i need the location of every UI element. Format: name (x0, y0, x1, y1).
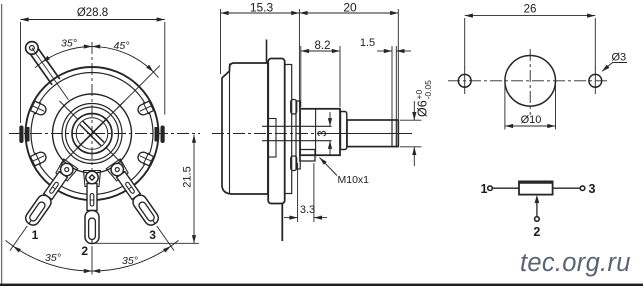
dim arc 35/35 bottom (6, 240, 179, 271)
wire 3 (553, 187, 581, 189)
pin end line inside bushing (315, 110, 317, 155)
crimp finger lower-right (136, 149, 155, 167)
dim 15.3 (221, 9, 300, 108)
dim Ø10 (505, 84, 556, 130)
small hole left centerline (464, 67, 466, 94)
cover flange ring (268, 59, 285, 204)
svg-text:1.5: 1.5 (360, 37, 375, 49)
cover inner ring r30 (62, 104, 122, 164)
small hole right centerline (594, 67, 596, 94)
svg-text:45°: 45° (114, 40, 130, 52)
svg-text:M10x1: M10x1 (338, 174, 370, 186)
dim 21.5 (94, 135, 199, 244)
svg-text:20: 20 (343, 1, 357, 15)
bushing boss (296, 101, 300, 169)
locating lug arm (30, 48, 60, 84)
shaft slot lines (391, 121, 393, 147)
lug radial line (35 deg side) (32, 48, 69, 100)
svg-text:1: 1 (32, 228, 39, 242)
body outer circle (26, 67, 159, 200)
hub bulge (268, 119, 276, 158)
cover inner ring r26.5 (66, 107, 119, 160)
svg-text:3: 3 (589, 182, 596, 196)
crimp hook top (291, 100, 297, 115)
locating lug head (26, 42, 39, 55)
terminal 1 node (488, 186, 493, 191)
inner circle r39.5 (53, 94, 132, 173)
45 deg radial line (118, 66, 160, 108)
hole Ø10 (505, 56, 556, 107)
svg-text:-0.05: -0.05 (423, 80, 433, 100)
hole Ø3 left (458, 74, 471, 87)
svg-text:15.3: 15.3 (250, 1, 274, 15)
side view centerline (212, 133, 412, 135)
wiper arrow (536, 198, 538, 217)
can top tab (266, 40, 268, 64)
dim arc 35/45 top (35, 46, 159, 77)
svg-text:2: 2 (81, 244, 88, 258)
vertical centerline (91, 42, 93, 246)
dim Ø28.8 (21, 20, 165, 124)
bottom scan border (0, 284, 643, 286)
crimp finger lower-left (29, 149, 48, 167)
crimp finger upper-left (29, 100, 48, 118)
dim 8.2 (301, 46, 340, 107)
dim 3 (neck) (329, 112, 331, 155)
terminal 2 (84, 171, 101, 244)
horizontal centerline (448, 80, 610, 82)
shaft slot X cross (60, 101, 125, 166)
wire 1 (492, 187, 519, 189)
dim 3.3 (284, 163, 327, 222)
shaft circle (72, 114, 112, 154)
left side ear (26, 127, 30, 142)
terminal 1 (22, 159, 78, 229)
cover rim circle (31, 73, 153, 195)
dim 26 (465, 16, 596, 68)
svg-text:35°: 35° (61, 38, 77, 50)
svg-text:2: 2 (533, 225, 540, 239)
svg-text:21.5: 21.5 (182, 166, 194, 187)
svg-text:Ø28.8: Ø28.8 (77, 7, 108, 19)
shaft collar (341, 112, 347, 150)
bottom radial extension lines (10, 226, 27, 251)
horizontal centerline (9, 133, 200, 135)
big hole centerline (529, 49, 531, 115)
svg-text:1: 1 (481, 182, 488, 196)
crimp finger upper-right (136, 100, 155, 118)
threaded bushing M10 (300, 109, 340, 155)
svg-text:35°: 35° (122, 255, 138, 267)
centerline over shaft (320, 133, 410, 135)
svg-text:3: 3 (149, 228, 156, 242)
resistor body (519, 181, 553, 194)
cover plate (285, 65, 292, 194)
dim 1.5 (377, 46, 411, 120)
shaft inner circle (76, 118, 108, 150)
can rolled lip inner line (229, 64, 231, 194)
dim 20 (299, 9, 398, 119)
label M10x1 (320, 158, 338, 176)
hole Ø3 right (589, 74, 602, 87)
left scan border (1, 4, 3, 286)
svg-text:Ø10: Ø10 (521, 114, 542, 126)
crimp hook bottom (291, 156, 297, 171)
terminal 2 rivet diamond (89, 175, 95, 181)
terminal 2 node (535, 217, 540, 222)
locating pin (300, 150, 315, 162)
terminal 3 (106, 159, 162, 229)
shaft neck lines (262, 125, 332, 127)
can body (222, 63, 268, 194)
svg-text:tec.org.ru: tec.org.ru (520, 249, 631, 277)
svg-text:Ø6: Ø6 (416, 100, 430, 117)
label Ø3 (602, 63, 627, 72)
svg-text:3: 3 (317, 130, 329, 136)
right side ear (155, 127, 159, 142)
terminal 3 node (580, 186, 585, 191)
svg-text:26: 26 (524, 4, 537, 16)
svg-text:8.2: 8.2 (315, 40, 331, 52)
svg-text:Ø3: Ø3 (612, 52, 627, 64)
shaft (347, 120, 398, 147)
svg-text:35°: 35° (45, 252, 61, 264)
terminal edge-on (281, 203, 283, 242)
dim Ø6 (400, 101, 422, 166)
svg-text:3.3: 3.3 (300, 204, 315, 216)
